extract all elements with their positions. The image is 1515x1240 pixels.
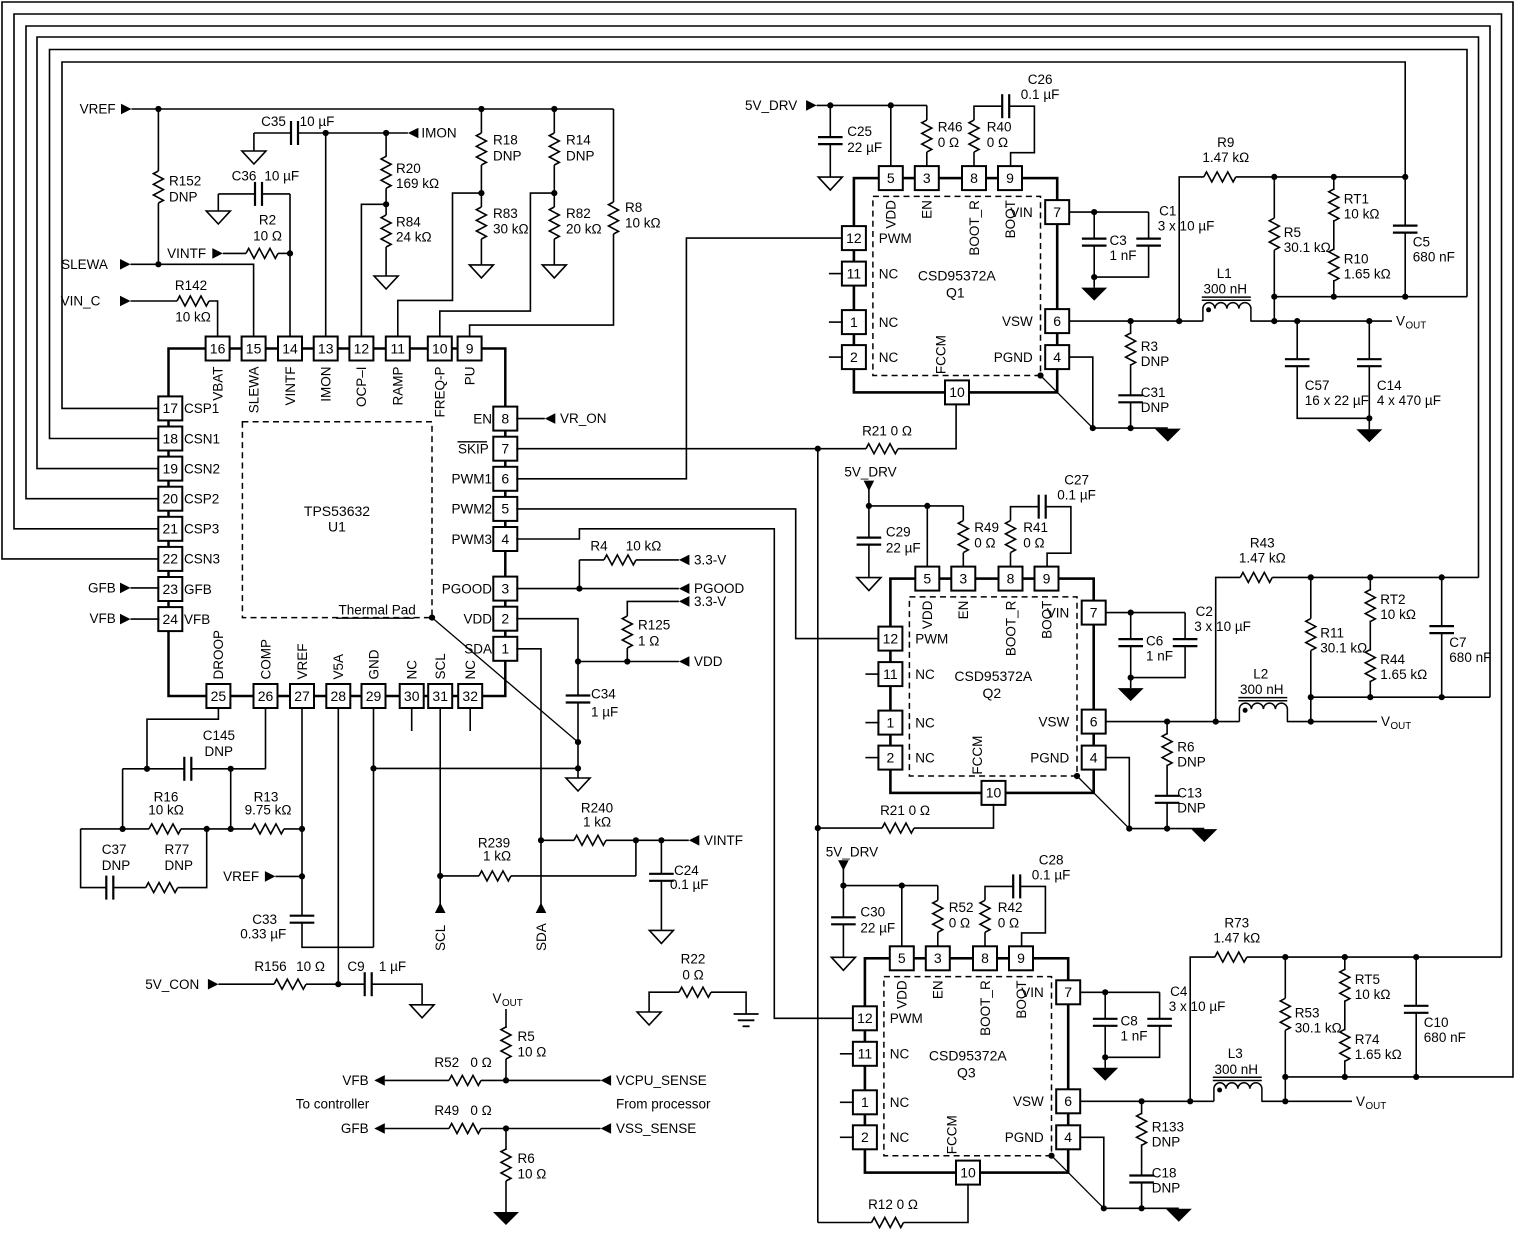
resistor R82 20 k: [553, 193, 555, 207]
U1 pin 4: [493, 527, 517, 551]
wire U1 pin 31 SCL riser: [439, 707, 441, 913]
wire R8 to U1 pin 9 (PU): [470, 234, 614, 338]
wire RAMP link to U1 pin 11: [398, 193, 482, 337]
ground at R6: [493, 1212, 519, 1225]
svg-text:7: 7: [1090, 604, 1098, 620]
Q1 pin 9: [998, 166, 1022, 190]
svg-text:DNP: DNP: [1152, 1180, 1181, 1195]
svg-text:26: 26: [258, 688, 274, 704]
junction SLEWA/R152: [155, 261, 161, 267]
ground at PGND rail Q1: [1155, 429, 1181, 442]
svg-text:R52: R52: [434, 1055, 459, 1070]
svg-text:VCPU_SENSE: VCPU_SENSE: [616, 1073, 707, 1088]
svg-text:VIN: VIN: [1047, 605, 1070, 620]
capacitor C7 680 nF: [1441, 577, 1443, 625]
svg-text:VSW: VSW: [1039, 714, 1070, 729]
svg-text:2: 2: [501, 611, 509, 627]
ground at C34: [566, 778, 590, 791]
svg-text:12: 12: [354, 340, 370, 356]
Q1 pin 6: [1045, 309, 1069, 333]
U1 pin 28: [326, 684, 350, 708]
svg-text:4: 4: [501, 531, 509, 547]
svg-text:0 Ω: 0 Ω: [987, 135, 1008, 150]
svg-text:1: 1: [887, 714, 895, 730]
svg-text:R8: R8: [625, 200, 642, 215]
svg-text:12: 12: [846, 230, 862, 246]
resistor R5 30.1 k: [1273, 177, 1275, 218]
ground at C29: [857, 578, 881, 591]
Q3 pin 9: [1009, 946, 1033, 970]
resistor R133 DNP: [1141, 1101, 1143, 1114]
junction SCL/R239: [437, 873, 443, 879]
svg-text:VDD: VDD: [694, 654, 723, 669]
capacitor C8 1 nF: [1104, 992, 1106, 1018]
svg-text:VINTF: VINTF: [704, 833, 743, 848]
wire PGND from Q1 pin 4: [1068, 357, 1093, 428]
Q3 pin 2: [853, 1125, 877, 1149]
svg-text:PWM3: PWM3: [452, 532, 493, 547]
svg-text:32: 32: [462, 688, 478, 704]
Q1 pin 4: [1045, 345, 1069, 369]
svg-text:2: 2: [850, 349, 858, 365]
svg-text:R6: R6: [1177, 740, 1194, 755]
svg-text:30: 30: [404, 688, 420, 704]
svg-text:0 Ω: 0 Ω: [470, 1103, 491, 1118]
svg-text:DNP: DNP: [1141, 354, 1170, 369]
wire SKIP vertical to lower phases: [817, 449, 819, 1223]
junction C8 ground node: [1102, 1054, 1108, 1060]
svg-text:5V_DRV: 5V_DRV: [826, 844, 878, 859]
svg-text:NC: NC: [890, 1095, 910, 1110]
svg-text:24 kΩ: 24 kΩ: [396, 229, 432, 244]
wire 5V_DRV rail phase 3: [843, 885, 937, 887]
resistor R83 30 k: [480, 193, 482, 207]
svg-text:DNP: DNP: [205, 744, 234, 759]
wire OCP-I link to U1 pin 12: [361, 204, 386, 337]
junction feedback/R53: [1282, 954, 1288, 960]
svg-text:20 kΩ: 20 kΩ: [566, 222, 602, 237]
resistor R152 DNP: [157, 109, 159, 171]
junction VOUT/R11: [1308, 719, 1314, 725]
svg-text:R5: R5: [1284, 225, 1301, 240]
junction VIN/C3: [1091, 209, 1097, 215]
Q3 pin 5: [890, 946, 914, 970]
svg-text:PU: PU: [462, 367, 477, 386]
U1 dashed body outline: [242, 422, 432, 618]
svg-text:EN: EN: [931, 980, 946, 999]
resistor RT1 10 k thermistor divider top: [1333, 177, 1335, 190]
U1 pin 2: [493, 607, 517, 631]
svg-text:680 nF: 680 nF: [1424, 1030, 1466, 1045]
svg-text:C34: C34: [591, 687, 616, 702]
svg-text:9.75 kΩ: 9.75 kΩ: [245, 802, 292, 817]
resistor R142 10 k: [131, 300, 178, 302]
Q2 pin 8: [999, 567, 1023, 591]
svg-text:OUT: OUT: [1391, 721, 1412, 732]
svg-text:R152: R152: [169, 174, 201, 189]
U1 pin 7: [493, 437, 517, 461]
svg-text:8: 8: [501, 410, 509, 426]
junction VSW/R9: [1176, 318, 1182, 324]
svg-text:0 Ω: 0 Ω: [974, 536, 995, 551]
resistor R49 0 ohm to EN pin 3: [962, 506, 964, 521]
svg-text:DNP: DNP: [102, 858, 131, 873]
ground at C24: [649, 930, 673, 943]
junction feedback/RT1: [1331, 174, 1337, 180]
svg-text:EN: EN: [473, 411, 492, 426]
junction VREF flag/riser: [299, 873, 305, 879]
wire net CSN2 (U1 pin 19 to Q2 feedback node, frame loop): [37, 37, 1479, 578]
svg-text:R6: R6: [518, 1151, 535, 1166]
resistor R43 1.47 k feedback: [1216, 577, 1241, 721]
resistor R20 169 k: [385, 133, 387, 157]
wire U1 pin 32 NC stub: [469, 707, 471, 731]
svg-text:VIN: VIN: [1010, 205, 1033, 220]
Q3 pin 10: [956, 1161, 980, 1185]
svg-text:BOOT_R: BOOT_R: [967, 200, 982, 256]
svg-text:21: 21: [163, 521, 179, 537]
svg-text:1.65 kΩ: 1.65 kΩ: [1344, 267, 1391, 282]
wire R239 riser to VINTF node: [635, 840, 637, 876]
Q1 pin 5: [879, 166, 903, 190]
svg-text:R83: R83: [493, 206, 518, 221]
svg-text:3 x 10 µF: 3 x 10 µF: [1194, 619, 1251, 634]
svg-text:OUT: OUT: [1366, 1101, 1387, 1112]
svg-text:IMON: IMON: [421, 126, 456, 141]
junction C34/thermal diagonal: [575, 739, 581, 745]
svg-text:NC: NC: [915, 715, 935, 730]
svg-text:C6: C6: [1146, 634, 1163, 649]
svg-text:9: 9: [1043, 570, 1051, 586]
svg-text:DNP: DNP: [165, 858, 194, 873]
svg-text:R20: R20: [396, 161, 421, 176]
svg-text:CSN3: CSN3: [184, 552, 220, 567]
junction R4/PGOOD: [576, 586, 582, 592]
svg-text:0 Ω: 0 Ω: [998, 915, 1019, 930]
svg-text:GFB: GFB: [184, 582, 212, 597]
wire net CSN1 (U1 pin 18 to Q1 VOUT sense rail, frame loop): [50, 50, 1468, 439]
ground at PGND rail Q2: [1191, 829, 1217, 842]
node SCL flag arrow: [435, 903, 446, 914]
U1 pin 23: [158, 577, 182, 601]
svg-text:3 x 10 µF: 3 x 10 µF: [1169, 999, 1226, 1014]
ground at C14: [1368, 418, 1370, 429]
svg-text:0 Ω: 0 Ω: [682, 967, 703, 982]
capacitor C31 DNP: [1118, 394, 1143, 396]
ground at R84: [374, 276, 398, 289]
wire 5V_DRV rail phase 2: [869, 505, 963, 507]
svg-text:1: 1: [850, 314, 858, 330]
svg-text:14: 14: [282, 340, 298, 356]
svg-text:7: 7: [1064, 984, 1072, 1000]
svg-text:To controller: To controller: [296, 1096, 370, 1111]
svg-text:NC: NC: [879, 266, 899, 281]
svg-text:1 nF: 1 nF: [1110, 248, 1137, 263]
svg-text:R82: R82: [566, 206, 591, 221]
ground at C8: [1104, 1057, 1106, 1068]
junction R156/C9/V5A: [335, 981, 341, 987]
node VR_ON flag at EN pin: [516, 418, 545, 420]
svg-text:30.1 kΩ: 30.1 kΩ: [1284, 240, 1331, 255]
svg-text:CSD95372A: CSD95372A: [918, 267, 996, 283]
wire VSW from Q3 pin 6: [1079, 1100, 1214, 1102]
wire sense rail to VOUT line Q2: [1310, 697, 1312, 721]
svg-text:CSP2: CSP2: [184, 492, 219, 507]
U1 pin 11: [386, 337, 410, 361]
wire U1 pin 27 VREF riser: [301, 707, 303, 915]
svg-text:10 Ω: 10 Ω: [518, 1044, 547, 1059]
Q3 NC stub wires: [840, 1053, 854, 1055]
svg-text:R74: R74: [1355, 1032, 1380, 1047]
U1 thermal pad diagonal wire to ground: [429, 615, 435, 621]
svg-text:R84: R84: [396, 214, 421, 229]
wire sense rail to VOUT line Q3: [1284, 1077, 1286, 1101]
svg-text:VFB: VFB: [90, 611, 116, 626]
wire VDD pin 5 riser Q3: [899, 883, 905, 889]
svg-text:R21 0 Ω: R21 0 Ω: [880, 803, 930, 818]
svg-text:680 nF: 680 nF: [1413, 250, 1455, 265]
svg-text:VBAT: VBAT: [210, 367, 225, 401]
resistor R49 0 ohm on GFB line: [385, 1128, 449, 1130]
U1 pin 21: [158, 517, 182, 541]
wire PGND from Q3 pin 4: [1079, 1137, 1104, 1208]
ground at PGND rail Q3: [1166, 1209, 1192, 1222]
U1 pin 14: [278, 337, 302, 361]
svg-text:C28: C28: [1039, 852, 1064, 867]
svg-text:C2: C2: [1196, 604, 1213, 619]
capacitor C24 0.1 uF: [660, 840, 662, 873]
svg-text:DNP: DNP: [566, 149, 595, 164]
svg-text:DNP: DNP: [169, 190, 198, 205]
svg-text:3: 3: [959, 570, 967, 586]
svg-text:19: 19: [163, 460, 179, 476]
svg-text:17: 17: [163, 400, 179, 416]
svg-text:10: 10: [432, 340, 448, 356]
wire VOUT sense rail Q2: [1311, 696, 1490, 698]
junction feedback/C5/CSP1 frame net: [1402, 174, 1408, 180]
wire VDD net from U1 pin 2: [516, 619, 578, 662]
svg-text:RT2: RT2: [1380, 592, 1405, 607]
wire SLEWA to U1 pin 15: [131, 264, 254, 337]
wire U1 pin 25 DROOP link: [147, 707, 218, 769]
svg-text:DNP: DNP: [1177, 755, 1206, 770]
Q2 NC stub wires: [865, 673, 879, 675]
svg-text:R21 0 Ω: R21 0 Ω: [862, 424, 912, 439]
svg-text:16 x 22 µF: 16 x 22 µF: [1305, 393, 1369, 408]
svg-text:RT5: RT5: [1355, 972, 1380, 987]
svg-text:1 µF: 1 µF: [379, 959, 406, 974]
svg-text:C7: C7: [1449, 635, 1466, 650]
resistor R53 30.1 k: [1284, 957, 1286, 998]
Q3 pin 7: [1056, 980, 1080, 1004]
svg-text:NC: NC: [463, 660, 478, 680]
resistor R52 0 ohm to EN pin 3: [937, 886, 939, 901]
wire VSW from Q1 pin 6: [1068, 320, 1203, 322]
inductor L2 300 nH: [1239, 703, 1287, 722]
svg-text:1 kΩ: 1 kΩ: [583, 815, 611, 830]
resistor R14 DNP: [551, 106, 557, 112]
svg-text:5V_CON: 5V_CON: [145, 977, 199, 992]
svg-text:3.3-V: 3.3-V: [694, 553, 726, 568]
svg-text:3.3-V: 3.3-V: [694, 594, 726, 609]
svg-text:C33: C33: [252, 912, 277, 927]
wire C145 left to R16 line: [122, 769, 124, 829]
svg-text:5: 5: [898, 950, 906, 966]
junction SKIP/R21 phase 2: [815, 825, 821, 831]
svg-text:R12 0 Ω: R12 0 Ω: [868, 1197, 918, 1212]
junction R2/pin14 riser: [287, 250, 293, 256]
wire sense rail to VOUT line Q1: [1273, 297, 1275, 321]
Q3 pin 12: [853, 1006, 877, 1030]
junction PGND rail Q3: [1101, 1205, 1107, 1211]
svg-text:VIN_C: VIN_C: [61, 294, 101, 309]
svg-text:0 Ω: 0 Ω: [470, 1055, 491, 1070]
capacitor C33 0.33 uF: [290, 915, 315, 917]
resistor R10 1.65 k divider bottom: [1333, 220, 1335, 250]
resistor R18 DNP: [478, 106, 484, 112]
svg-text:C27: C27: [1064, 473, 1089, 488]
svg-text:R43: R43: [1250, 536, 1275, 551]
svg-text:0.1 µF: 0.1 µF: [1057, 488, 1096, 503]
U1 pin 3: [493, 577, 517, 601]
svg-text:CSN1: CSN1: [184, 431, 220, 446]
wire net CSP1 (U1 pin 17 to Q1 feedback node, frame loop): [62, 62, 1405, 408]
capacitor C1 3 x 10 uF: [1148, 212, 1150, 238]
junction C3 ground node: [1091, 274, 1097, 280]
junction IMON/pin13: [323, 130, 329, 136]
svg-text:C9: C9: [347, 959, 364, 974]
svg-text:R40: R40: [987, 120, 1012, 135]
junction C31/PGND rail: [1128, 425, 1134, 431]
U1 pin 1: [493, 637, 517, 661]
svg-text:PGND: PGND: [1030, 750, 1069, 765]
svg-text:6: 6: [501, 471, 509, 487]
Q1 pin 3: [915, 166, 939, 190]
svg-text:2: 2: [887, 749, 895, 765]
svg-text:0 Ω: 0 Ω: [1023, 536, 1044, 551]
resistor R42 0 ohm to BOOT_R pin 8: [985, 886, 1013, 900]
svg-text:C24: C24: [674, 863, 699, 878]
svg-text:PWM: PWM: [915, 631, 948, 646]
svg-text:VDD: VDD: [463, 612, 492, 627]
node 3.3-V flag at R4: [679, 555, 690, 566]
U1 pin 13: [314, 337, 338, 361]
svg-text:SKIP: SKIP: [458, 441, 489, 456]
junction SKIP/R21 phase 1: [815, 446, 821, 452]
svg-text:VSS_SENSE: VSS_SENSE: [616, 1121, 696, 1136]
capacitor C36 10 uF: [218, 193, 254, 195]
wire U1 pin 28 V5A riser: [337, 707, 339, 984]
ground open at R22 left: [637, 1012, 661, 1025]
capacitor C34 1 uF: [577, 662, 579, 696]
svg-text:DNP: DNP: [1177, 801, 1206, 816]
node 3.3-V flag at R125: [679, 596, 690, 607]
svg-text:0.1 µF: 0.1 µF: [670, 877, 709, 892]
svg-text:R42: R42: [998, 900, 1023, 915]
svg-text:DNP: DNP: [1141, 400, 1170, 415]
junction VSW/R73: [1187, 1098, 1193, 1104]
svg-text:CSP3: CSP3: [184, 522, 219, 537]
svg-text:RT1: RT1: [1344, 192, 1369, 207]
svg-text:C37: C37: [102, 842, 127, 857]
wire VREF rail: [132, 108, 614, 110]
resistor R239 1 k: [440, 875, 479, 877]
U1 pin 32: [458, 684, 482, 708]
resistor R6 10 ohm: [505, 1129, 507, 1151]
wire PWM1 from U1 pin 6 to Q1: [516, 238, 843, 479]
Q2 pin 7: [1082, 601, 1106, 625]
svg-text:10 Ω: 10 Ω: [518, 1166, 547, 1181]
wire PGND from Q2 pin 4: [1105, 758, 1130, 829]
svg-text:VSW: VSW: [1013, 1094, 1044, 1109]
wire VIN from Q1 pin 7: [1068, 211, 1148, 213]
svg-text:3: 3: [923, 170, 931, 186]
svg-text:GFB: GFB: [341, 1121, 369, 1136]
node PGOOD output flag: [679, 583, 690, 594]
svg-text:R240: R240: [581, 801, 613, 816]
junction VOUT/C14: [1366, 318, 1372, 324]
svg-text:R46: R46: [938, 120, 963, 135]
svg-text:10 µF: 10 µF: [264, 168, 299, 183]
Q3 dashed body outline: [884, 977, 1052, 1156]
U1 pin 31: [428, 684, 452, 708]
svg-text:1 nF: 1 nF: [1121, 1028, 1148, 1043]
junction feedback/R11: [1308, 574, 1314, 580]
svg-text:C57: C57: [1305, 378, 1330, 393]
svg-text:23: 23: [163, 581, 179, 597]
svg-text:24: 24: [163, 611, 179, 627]
resistor RT2 10 k thermistor divider top: [1369, 577, 1371, 590]
Q1 dashed body outline: [873, 196, 1041, 375]
wire PWM3 from U1 pin 4 to Q3: [516, 529, 854, 1019]
Q2 pin 11: [878, 662, 902, 686]
junction R13/VREF riser: [299, 826, 305, 832]
svg-text:R2: R2: [259, 212, 276, 227]
svg-text:CSD95372A: CSD95372A: [954, 668, 1032, 684]
svg-text:V: V: [1381, 714, 1390, 729]
wire VOUT sense rail Q1: [1274, 296, 1467, 298]
svg-text:R53: R53: [1295, 1005, 1320, 1020]
svg-text:V: V: [1396, 314, 1405, 329]
junction R18/R83/RAMP: [478, 190, 484, 196]
svg-text:5V_DRV: 5V_DRV: [844, 465, 896, 480]
capacitor C25 22 uF: [827, 102, 833, 108]
capacitor C13 DNP: [1155, 795, 1180, 797]
junction feedback/RT2: [1367, 574, 1373, 580]
svg-text:V: V: [1356, 1094, 1365, 1109]
resistor R52 0 ohm on VFB line: [385, 1079, 449, 1081]
svg-text:L1: L1: [1217, 266, 1232, 281]
capacitor C5 680 nF: [1404, 177, 1406, 225]
svg-text:1 kΩ: 1 kΩ: [483, 848, 511, 863]
svg-text:PWM: PWM: [890, 1011, 923, 1026]
svg-text:10: 10: [949, 384, 965, 400]
svg-text:R49: R49: [974, 520, 999, 535]
svg-text:SDA: SDA: [534, 923, 549, 951]
junction VIN/C8: [1102, 989, 1108, 995]
svg-text:DNP: DNP: [1152, 1134, 1181, 1149]
svg-text:7: 7: [1053, 204, 1061, 220]
junction VOUT/R53: [1282, 1098, 1288, 1104]
wire VOUT line Q2: [1287, 721, 1377, 723]
capacitor C57 16 x 22 uF: [1296, 321, 1298, 358]
Q1 NC stub wires: [829, 273, 843, 275]
inductor L1 300 nH: [1203, 303, 1251, 322]
svg-text:VREF: VREF: [295, 643, 310, 679]
Q1 thermal pad diagonal: [1037, 372, 1043, 378]
capacitor C9 1 uF: [364, 972, 366, 996]
svg-text:SDA: SDA: [464, 642, 492, 657]
